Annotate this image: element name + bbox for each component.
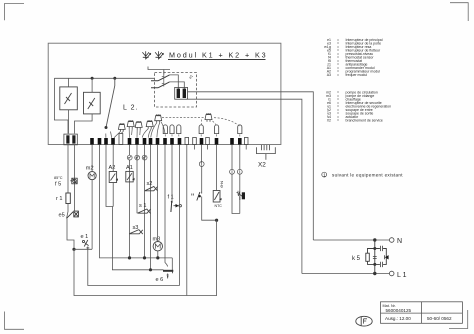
wire K2 top — [91, 78, 93, 92]
node junction bottom of K3 contact — [105, 126, 108, 129]
svg-text:branchement de service: branchement de service — [346, 118, 383, 122]
plug trapezoid y-connectors — [118, 114, 212, 132]
socket mark circle 1 — [127, 155, 132, 160]
svg-text:s2: s2 — [147, 181, 153, 187]
legend block 2 — [326, 90, 391, 122]
actuator A1 — [126, 171, 135, 182]
terminal L1 circle — [389, 271, 394, 276]
module pin row filled pins — [90, 138, 241, 145]
wire to L1 line — [188, 99, 302, 273]
node 150.5 bus C — [149, 268, 152, 271]
svg-text:L 1: L 1 — [397, 272, 407, 279]
wire pin 165 to e6 actuator — [165, 145, 167, 265]
switch contact e1a — [151, 75, 170, 81]
node chain bottom — [72, 248, 75, 251]
wire f5 chain left leg — [67, 145, 69, 193]
wire e2 to NTC node — [202, 201, 217, 221]
switch s2 — [145, 186, 158, 191]
wire pin 113 through A2 — [112, 145, 114, 207]
svg-text:X2: X2 — [258, 162, 266, 169]
thermal cutout f5 — [70, 178, 77, 184]
wire f5 chain right leg — [74, 145, 76, 211]
svg-text:e5: e5 — [59, 213, 65, 219]
svg-text:f 1: f 1 — [168, 195, 174, 201]
svg-text:k 5: k 5 — [352, 256, 361, 262]
wire pin 207.5 stub — [207, 145, 209, 150]
wire pin 150.5 down — [150, 145, 152, 270]
node 144.5 bus B — [143, 256, 146, 259]
logo oval F — [356, 316, 372, 326]
wire m2 down — [91, 180, 93, 250]
svg-text:s 1: s 1 — [139, 203, 146, 209]
svg-text:A2: A2 — [109, 165, 116, 171]
wire e1 down to bus D — [88, 249, 180, 285]
wire pin 106 A2 left leg — [106, 145, 113, 207]
svg-text:L 2.: L 2. — [123, 105, 138, 112]
wire to N line — [188, 92, 314, 240]
wire pin 240 loop right — [239, 145, 241, 214]
corner mark bottom-right — [449, 310, 468, 329]
connector X2 service — [257, 145, 276, 160]
svg-text:NTC: NTC — [215, 204, 223, 208]
connector in dashed box 2-pin — [175, 87, 188, 99]
node k5 top — [373, 238, 376, 241]
actuator A2 — [109, 172, 118, 183]
wire N terminal line — [313, 239, 389, 241]
node A1 bus B — [128, 256, 131, 259]
wire e2 lower — [201, 197, 203, 201]
wire plug prong fan — [106, 122, 165, 138]
svg-text:suivant le equipement exist: suivant le equipement existant — [332, 173, 403, 178]
wire pin to m2 — [91, 145, 93, 172]
relay contact K3 diagonal — [106, 78, 115, 127]
wire NTC node to bus E — [74, 220, 217, 295]
node mark circle 1 optional — [199, 162, 204, 167]
wire pin 216.5 to NTC — [216, 145, 218, 190]
connector X module left 2-pin — [64, 134, 77, 145]
svg-text:5600040125: 5600040125 — [386, 308, 412, 313]
svg-text:50-60/ 0562: 50-60/ 0562 — [427, 316, 452, 321]
wire pin 194.5 stub — [194, 145, 196, 150]
dashed box door switch e1 — [155, 73, 197, 108]
switch s1 — [138, 209, 151, 214]
sensor f4 NTC — [213, 191, 221, 203]
relay K2 — [84, 92, 101, 114]
motor m3 drain pump — [153, 242, 162, 251]
svg-text:A1: A1 — [126, 165, 133, 171]
module frame Modul K1+K2+K3 — [48, 43, 281, 144]
label e6 — [156, 274, 169, 284]
wire pin 179.5 through f1 to bus D — [179, 145, 181, 286]
wire m3 to bus B — [157, 251, 159, 258]
switch e6 securite bar — [163, 265, 173, 274]
wire pin 99.5 to bus B — [100, 145, 173, 258]
svg-text:Ausg.: 12.00: Ausg.: 12.00 — [385, 316, 411, 321]
motor m2 circulation pump — [88, 172, 96, 180]
svg-text:e 1: e 1 — [81, 234, 89, 240]
wire K1 top — [68, 78, 70, 87]
switch s3 — [129, 230, 143, 235]
wire pin 201.5 down — [201, 145, 203, 162]
wire circle to e2 — [201, 166, 203, 191]
wire e6 branch from bus B — [171, 258, 173, 271]
corner mark bottom-left — [5, 312, 25, 330]
relay k5 suppressor branch — [375, 246, 389, 267]
wire pin 129.5 down — [129, 145, 131, 258]
wire pin 246.2 stub — [245, 145, 247, 150]
switch e5 flotteur — [67, 211, 79, 218]
svg-text:Modul K1 + K2 + K3: Modul K1 + K2 + K3 — [169, 51, 268, 60]
wire pin 172 to f1 — [171, 145, 173, 203]
corner mark top-left — [5, 4, 25, 21]
svg-text:f 5: f 5 — [55, 182, 61, 188]
switch e3 with element — [237, 191, 246, 200]
socket mark circle 3 — [142, 155, 147, 160]
socket mark circle 2 — [135, 155, 140, 160]
node junction top of K3 contact — [113, 77, 116, 80]
svg-text:=: = — [337, 118, 339, 122]
node m3 bus B — [156, 256, 159, 259]
node e2 NTC junction — [215, 219, 218, 222]
node k5 bottom — [373, 272, 376, 275]
svg-text:r 1: r 1 — [56, 196, 63, 202]
wire L1 terminal line — [302, 273, 390, 275]
relay k5 coil branch — [366, 240, 377, 274]
svg-text:85°C: 85°C — [54, 176, 63, 180]
switch linkage — [162, 71, 166, 87]
socket circle loop left — [230, 169, 235, 174]
wire e5 to node — [67, 219, 74, 250]
node k5 branch top — [373, 247, 376, 250]
legend block 1 — [324, 38, 383, 77]
wire left drop to connector — [54, 78, 68, 133]
svg-text:X2: X2 — [327, 118, 331, 122]
plug terminal row capsules — [163, 125, 242, 134]
pressure switch f1 — [171, 201, 182, 212]
wire pin 186.8 to bus E — [186, 145, 188, 296]
wire top internal bus — [54, 77, 154, 79]
wire K1 bottom to connector — [68, 110, 70, 134]
svg-text:N: N — [397, 238, 402, 245]
svg-text:frequer modul: frequer modul — [346, 73, 368, 77]
wire pin 157.5 to m3 — [157, 145, 159, 242]
node junction above K2 — [91, 77, 94, 80]
socket circle loop right — [237, 169, 242, 174]
terminal N circle — [389, 238, 394, 243]
relay K1 — [60, 87, 78, 110]
svg-text:e 6: e 6 — [156, 277, 164, 283]
wire bus A — [74, 248, 92, 250]
wire A2 loop to bus C — [112, 207, 163, 270]
wire pin 137 down — [136, 145, 138, 214]
wire contacts to connector — [170, 75, 185, 89]
switch contact e1b — [151, 82, 170, 88]
wire dashed optional links — [162, 118, 240, 138]
wire pin 232 loop left — [232, 145, 240, 214]
module pin row open pins — [119, 134, 248, 145]
wire r1 to e5 — [67, 204, 68, 219]
wire hook above dashed box — [148, 67, 170, 75]
note circle 1 — [322, 172, 327, 177]
svg-text:f4-Θ: f4-Θ — [220, 181, 224, 188]
corner mark top-right — [450, 3, 468, 21]
wire K2 bottom to connector — [75, 114, 93, 134]
header earth symbol 2 — [155, 51, 163, 59]
svg-text:A3: A3 — [327, 73, 331, 77]
node k5 branch bottom — [373, 263, 376, 266]
header earth symbol 1 — [142, 51, 150, 59]
wire pin 144.5 down — [144, 145, 146, 258]
resistor r1 heating — [66, 193, 70, 204]
switch e2 — [192, 192, 202, 201]
title block table — [381, 302, 463, 324]
svg-text:=: = — [337, 73, 339, 77]
switch e1 porte — [82, 240, 89, 249]
